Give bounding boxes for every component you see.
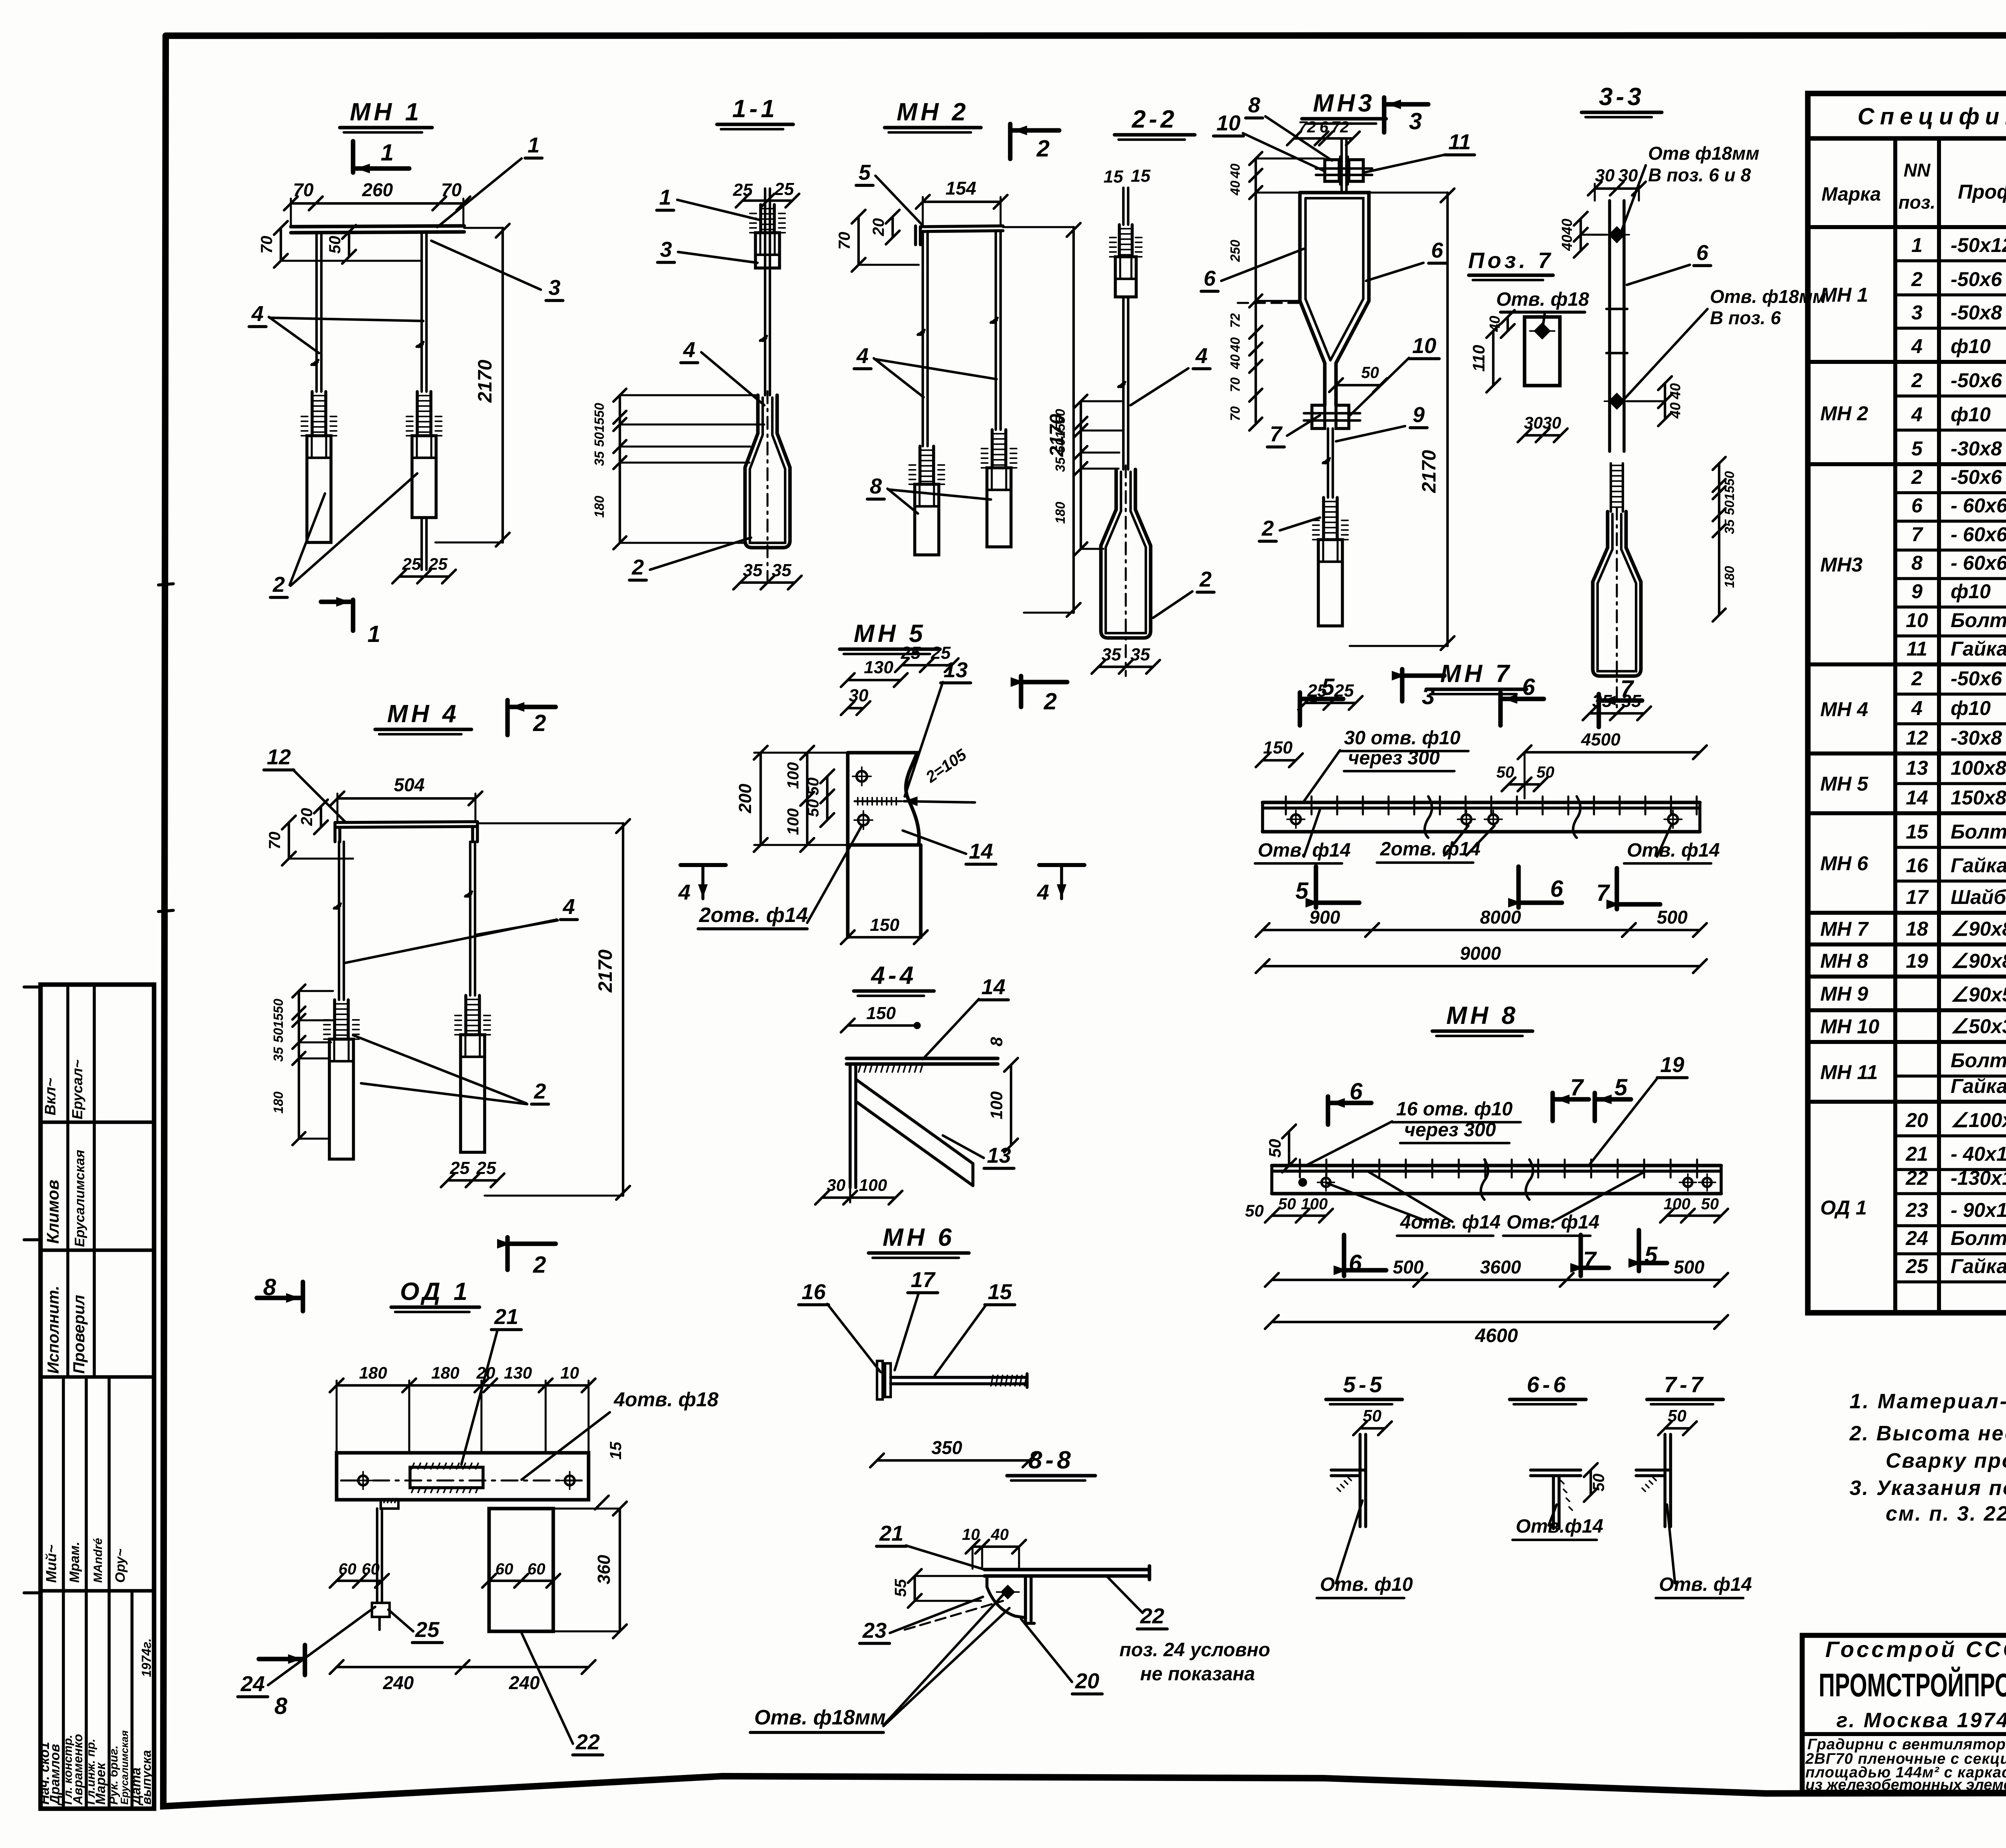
svg-text:МН 5: МН 5 <box>854 620 926 648</box>
MN2 dim 154 <box>923 201 1001 203</box>
stamp h-div 3 <box>41 1375 154 1379</box>
svg-text:10: 10 <box>1216 111 1241 135</box>
svg-text:Отв. ф14: Отв. ф14 <box>1258 840 1351 861</box>
svg-text:1: 1 <box>1911 234 1923 256</box>
MN4 dim 2170 <box>622 823 624 1196</box>
svg-text:МН3: МН3 <box>1313 89 1375 117</box>
svg-text:16: 16 <box>1906 854 1929 877</box>
svg-text:МН 9: МН 9 <box>1820 983 1868 1005</box>
svg-text:4: 4 <box>683 338 695 362</box>
OD1 dim 360 <box>619 1509 621 1631</box>
svg-text:110: 110 <box>1469 345 1488 372</box>
MN8 dim 50 left <box>1288 1131 1290 1166</box>
svg-text:10: 10 <box>962 1526 980 1543</box>
svg-text:30: 30 <box>1543 413 1561 432</box>
svg-text:40: 40 <box>1228 337 1243 352</box>
6-6 dim 50 <box>1590 1470 1592 1495</box>
svg-text:50: 50 <box>271 999 286 1013</box>
stamp outer <box>41 985 154 1809</box>
MN8 bar pos19 <box>1272 1164 1721 1168</box>
MN1 section flag 1 bottom <box>351 600 355 631</box>
MN4 right leg <box>469 842 471 995</box>
MN8 dim 50-100 left <box>1272 1214 1326 1217</box>
svg-text:24: 24 <box>240 1672 265 1696</box>
svg-text:40: 40 <box>1667 383 1683 400</box>
svg-text:13: 13 <box>944 658 968 682</box>
svg-text:50: 50 <box>1363 1406 1382 1425</box>
svg-text:2. Высота неоговоренных сва: 2. Высота неоговоренных сварных швов h=5… <box>1849 1422 2006 1445</box>
Pos7 dim 110 <box>1492 331 1494 386</box>
svg-text:NN: NN <box>1904 160 1931 181</box>
col Марка line <box>1893 138 1897 1313</box>
svg-text:-50x6: -50x6 <box>1951 369 2002 392</box>
svg-text:см. п. 3. 22 пояснительной: см. п. 3. 22 пояснительной записки альбо… <box>1886 1502 2006 1525</box>
MN5 dim 100-100 <box>806 753 808 845</box>
Pos7 plate <box>1525 317 1560 386</box>
svg-text:3: 3 <box>660 238 672 262</box>
svg-text:8: 8 <box>274 1693 288 1719</box>
svg-text:50: 50 <box>1245 1201 1264 1220</box>
svg-text:- 90x10: - 90x10 <box>1951 1199 2006 1221</box>
svg-text:100: 100 <box>987 1091 1006 1119</box>
MN3 dim 2170 <box>1446 193 1449 646</box>
MN3 section flag 3 bottom <box>1400 669 1404 701</box>
svg-text:40: 40 <box>1228 181 1243 196</box>
MN4 top extension <box>477 822 623 824</box>
svg-text:5: 5 <box>1645 1242 1658 1268</box>
svg-text:130: 130 <box>864 658 893 677</box>
svg-text:1: 1 <box>659 185 671 209</box>
svg-text:14: 14 <box>981 975 1005 999</box>
svg-text:6: 6 <box>1320 118 1329 136</box>
svg-text:- 60x6: - 60x6 <box>1951 552 2006 574</box>
svg-text:3: 3 <box>1409 108 1422 134</box>
svg-text:50: 50 <box>1537 764 1555 781</box>
svg-text:4: 4 <box>1911 403 1923 426</box>
svg-text:8000: 8000 <box>1480 907 1521 928</box>
4-4 gusset pos13 <box>856 1079 973 1164</box>
svg-text:180: 180 <box>592 496 607 518</box>
svg-text:3: 3 <box>548 276 560 300</box>
svg-text:13: 13 <box>987 1143 1011 1168</box>
svg-text:50: 50 <box>804 778 822 796</box>
svg-text:- 40x10: - 40x10 <box>1951 1143 2006 1165</box>
8-8 dim 10-40 <box>973 1545 1019 1548</box>
svg-text:МН 8: МН 8 <box>1820 950 1868 972</box>
MN5 section flag 4 right <box>1039 863 1084 867</box>
svg-text:1: 1 <box>528 133 540 157</box>
svg-text:не показана: не показана <box>1140 1663 1255 1685</box>
svg-text:Ору~: Ору~ <box>113 1549 128 1583</box>
svg-text:50: 50 <box>1361 364 1379 382</box>
svg-text:2: 2 <box>1199 567 1212 591</box>
svg-text:3: 3 <box>1422 683 1435 709</box>
svg-text:100: 100 <box>859 1176 887 1194</box>
stamp h-div 4 <box>41 1589 154 1593</box>
4-4 plate pos14 <box>847 1057 998 1060</box>
MN8 flag 5 top <box>1592 1093 1597 1121</box>
svg-text:2170: 2170 <box>475 359 496 403</box>
svg-text:70: 70 <box>266 832 284 850</box>
svg-text:Госстрой СССР: Госстрой СССР <box>1825 1637 2006 1662</box>
svg-text:50: 50 <box>1053 438 1068 453</box>
svg-text:Болт М12: Болт М12 <box>1951 1049 2006 1072</box>
MN7 flag 7 bottom <box>1614 868 1619 909</box>
MN5 dim 30 <box>848 707 863 709</box>
MN2 left sleeve pos8 <box>918 446 922 484</box>
OD1 dim 60-60 left <box>337 1580 382 1582</box>
svg-text:4: 4 <box>251 302 264 326</box>
svg-text:Драмлов: Драмлов <box>47 1744 63 1806</box>
MN5 dim 150 <box>848 936 921 938</box>
svg-text:8-8: 8-8 <box>1028 1446 1074 1474</box>
MN5 weld seam <box>857 798 859 805</box>
OD1 stub <box>381 1500 398 1509</box>
MN4 right sleeve <box>464 995 467 1035</box>
svg-text:4600: 4600 <box>1475 1325 1518 1346</box>
svg-text:2: 2 <box>533 710 546 736</box>
svg-text:Марка: Марка <box>1821 184 1881 205</box>
svg-text:72: 72 <box>1228 313 1243 328</box>
svg-text:25: 25 <box>1905 1255 1929 1277</box>
svg-text:50: 50 <box>1722 471 1737 486</box>
svg-text:12: 12 <box>267 745 291 769</box>
svg-text:30: 30 <box>1618 166 1638 185</box>
svg-text:7-7: 7-7 <box>1664 1372 1706 1397</box>
svg-text:19: 19 <box>1660 1053 1684 1077</box>
svg-text:МН 2: МН 2 <box>1820 402 1868 425</box>
svg-text:15: 15 <box>592 417 607 432</box>
svg-text:35: 35 <box>1102 645 1121 664</box>
OD1 plate pos22 <box>489 1509 553 1631</box>
MN5 dim 200 <box>759 753 762 845</box>
svg-text:100: 100 <box>784 808 802 835</box>
svg-text:2: 2 <box>533 1252 546 1278</box>
svg-text:10: 10 <box>1412 334 1436 358</box>
table title underline <box>1808 136 2006 140</box>
svg-text:г. Москва 1974г.: г. Москва 1974г. <box>1836 1709 2006 1732</box>
svg-text:6: 6 <box>1696 241 1709 265</box>
svg-text:4500: 4500 <box>1581 730 1620 749</box>
MN8 dim 500-3600-500 <box>1272 1279 1721 1281</box>
svg-text:20: 20 <box>1905 1109 1928 1131</box>
svg-text:70: 70 <box>836 232 853 250</box>
MN6 bolt pos15-17 <box>877 1361 883 1399</box>
svg-text:через 300: через 300 <box>1348 747 1440 769</box>
3-3 bar splice <box>1606 308 1627 310</box>
svg-text:15: 15 <box>1906 820 1929 843</box>
svg-text:24: 24 <box>1905 1227 1928 1249</box>
svg-text:2отв. ф14: 2отв. ф14 <box>698 904 808 927</box>
svg-text:∠50x32x4: ∠50x32x4 <box>1951 1015 2006 1038</box>
svg-text:25: 25 <box>415 1618 440 1642</box>
svg-text:50: 50 <box>1722 500 1737 515</box>
MN7 flag 5 bottom <box>1314 867 1318 908</box>
svg-text:50: 50 <box>1265 1139 1284 1158</box>
svg-text:40: 40 <box>1559 219 1575 235</box>
svg-text:150x8: 150x8 <box>1951 786 2006 809</box>
8-8 plate pos21 <box>985 1568 1149 1572</box>
svg-text:5: 5 <box>859 160 871 185</box>
fold mark 3 <box>24 1238 41 1241</box>
svg-text:500: 500 <box>1657 907 1688 928</box>
svg-text:150: 150 <box>870 915 899 935</box>
svg-text:2170: 2170 <box>1419 450 1440 493</box>
svg-text:50: 50 <box>326 236 344 254</box>
svg-text:240: 240 <box>383 1672 414 1693</box>
svg-text:17: 17 <box>1906 886 1929 908</box>
svg-text:9: 9 <box>1413 403 1425 427</box>
MN4 dim 504 <box>337 797 475 800</box>
svg-text:240: 240 <box>509 1672 540 1693</box>
MN2 section flag 2 top <box>1008 124 1012 159</box>
svg-text:Ерусал~: Ерусал~ <box>69 1060 85 1119</box>
svg-text:21: 21 <box>879 1521 904 1545</box>
svg-text:6: 6 <box>1350 1078 1363 1105</box>
svg-text:12: 12 <box>1906 727 1928 749</box>
MN8 hole ticks <box>1299 1160 1301 1178</box>
svg-text:6: 6 <box>1204 266 1216 290</box>
MN2 strap top <box>920 226 1003 227</box>
MN8 dim 100-50 right <box>1667 1214 1721 1217</box>
svg-text:Проверил: Проверил <box>70 1295 88 1374</box>
2-2 sleeve <box>1118 225 1121 257</box>
svg-text:через 300: через 300 <box>1404 1119 1496 1141</box>
3-3 dim 30-30 <box>1595 187 1639 190</box>
8-8 dim 55 <box>914 1576 916 1601</box>
svg-text:15: 15 <box>1131 166 1151 186</box>
svg-text:50: 50 <box>804 799 822 817</box>
MN5 holes <box>857 771 867 782</box>
MN3 section flag 3 top <box>1382 97 1386 132</box>
svg-text:МН 4: МН 4 <box>387 700 459 728</box>
svg-text:Болт М16: Болт М16 <box>1951 609 2006 632</box>
svg-text:154: 154 <box>946 178 977 199</box>
MN7 hole ticks <box>1285 796 1287 814</box>
svg-text:выпуска: выпуска <box>139 1750 154 1805</box>
7-7 angle <box>1663 1434 1667 1527</box>
svg-text:-50x12: -50x12 <box>1951 234 2006 256</box>
svg-text:60: 60 <box>362 1560 380 1578</box>
MN7 dim 900-8000-500 <box>1263 929 1700 931</box>
svg-text:В поз. 6 и 8: В поз. 6 и 8 <box>1648 164 1751 185</box>
svg-text:МН 11: МН 11 <box>1820 1061 1878 1084</box>
svg-text:2: 2 <box>1911 268 1923 290</box>
MN4 section flag 2 top <box>505 700 510 735</box>
svg-text:360: 360 <box>594 1555 614 1584</box>
MN7 dim 50-50 <box>1509 783 1541 786</box>
svg-text:Отв. ф18мм: Отв. ф18мм <box>1710 286 1826 307</box>
1-1 dim 25-25 <box>743 199 792 202</box>
svg-text:50: 50 <box>1053 409 1068 424</box>
stamp v-lines mid <box>62 1377 65 1591</box>
svg-text:180: 180 <box>271 1091 286 1114</box>
svg-text:180: 180 <box>1722 566 1737 588</box>
svg-text:20: 20 <box>476 1363 495 1382</box>
svg-text:Профиль: Профиль <box>1958 181 2006 203</box>
svg-text:6: 6 <box>1522 674 1535 700</box>
svg-text:4: 4 <box>562 895 575 919</box>
MN3 bell outer pos6 <box>1300 193 1369 405</box>
svg-text:2: 2 <box>1911 667 1923 690</box>
svg-text:ф10: ф10 <box>1951 697 1991 719</box>
svg-text:Болт М12: Болт М12 <box>1951 820 2006 843</box>
1-1 dim 35-35 <box>740 581 795 584</box>
svg-text:Отв.ф14: Отв.ф14 <box>1516 1516 1603 1537</box>
svg-text:11: 11 <box>1448 130 1471 154</box>
Pos7 dim 40 <box>1507 317 1509 331</box>
svg-text:35: 35 <box>1131 645 1150 664</box>
title block left divider <box>1802 1732 2006 1736</box>
MN2 dim 20 <box>891 217 894 238</box>
svg-text:40: 40 <box>1228 163 1243 179</box>
svg-text:-50x6: -50x6 <box>1951 466 2002 488</box>
svg-text:40: 40 <box>1228 354 1243 370</box>
svg-text:500: 500 <box>1393 1257 1424 1277</box>
svg-text:150: 150 <box>866 1003 896 1023</box>
MN7 breaks <box>1425 796 1432 838</box>
svg-text:5: 5 <box>1911 437 1923 460</box>
svg-text:50: 50 <box>1590 1474 1608 1492</box>
svg-text:-50x6: -50x6 <box>1951 268 2002 290</box>
MN2 top extension <box>1003 226 1074 228</box>
MN7 dim 4500 <box>1525 751 1700 753</box>
svg-text:25: 25 <box>774 179 794 199</box>
svg-text:40: 40 <box>1667 402 1683 419</box>
svg-text:900: 900 <box>1310 907 1340 928</box>
svg-text:Болт М16: Болт М16 <box>1951 1227 2006 1249</box>
svg-text:МН 1: МН 1 <box>1820 284 1868 306</box>
1-1 bottle pos2 <box>745 395 790 548</box>
MN2 dim 70 <box>857 217 860 265</box>
Pos7 hole diamond <box>1535 324 1549 338</box>
svg-text:25: 25 <box>450 1158 470 1178</box>
svg-text:Отв. ф18мм: Отв. ф18мм <box>754 1706 886 1729</box>
svg-text:16: 16 <box>802 1280 826 1304</box>
OD1 dim 240-240 <box>337 1666 589 1668</box>
svg-text:6: 6 <box>1550 876 1563 902</box>
svg-text:2: 2 <box>631 555 644 579</box>
svg-text:15: 15 <box>271 1013 286 1028</box>
svg-text:19: 19 <box>1906 950 1928 972</box>
7-7 dim 50 <box>1665 1427 1690 1430</box>
svg-text:МН 6: МН 6 <box>883 1224 955 1251</box>
svg-text:2: 2 <box>1261 516 1274 540</box>
svg-text:8: 8 <box>987 1037 1006 1046</box>
MN3 lower clamp pos10 <box>1312 405 1325 428</box>
svg-text:Ерусалимская: Ерусалимская <box>72 1150 87 1247</box>
svg-text:55: 55 <box>892 1579 910 1597</box>
4-4 leg <box>849 1064 852 1188</box>
svg-text:30: 30 <box>849 686 869 705</box>
svg-text:14: 14 <box>1906 786 1928 809</box>
svg-text:35: 35 <box>1053 457 1068 472</box>
svg-text:70: 70 <box>441 179 462 200</box>
svg-text:∠100x8: ∠100x8 <box>1951 1109 2006 1131</box>
MN3 dash level <box>1238 302 1302 304</box>
svg-text:Мрам.: Мрам. <box>67 1541 82 1583</box>
MN2 section flag 2 bottom <box>1019 676 1023 707</box>
MN1 section flag 1 top <box>351 141 355 173</box>
svg-text:МН 4: МН 4 <box>1820 698 1868 721</box>
OD1 section flag 8 bottom <box>303 1645 307 1675</box>
svg-text:3: 3 <box>1911 301 1923 324</box>
svg-text:8: 8 <box>1248 93 1260 117</box>
svg-text:7: 7 <box>1620 676 1634 702</box>
MN7 dim 150 <box>1263 759 1296 762</box>
4-4 dim 100 <box>1010 1065 1012 1145</box>
svg-text:Исполнит.: Исполнит. <box>45 1285 62 1374</box>
3-3 bar pos6 <box>1608 201 1611 451</box>
svg-text:15: 15 <box>607 1442 625 1460</box>
5-5 dim 50 <box>1360 1427 1385 1430</box>
svg-text:50: 50 <box>592 432 607 447</box>
svg-text:500: 500 <box>1674 1257 1705 1277</box>
OD1 center dash <box>341 1480 584 1482</box>
svg-text:- 60x6: - 60x6 <box>1951 494 2006 517</box>
3-3 bottle pos2 <box>1593 512 1641 676</box>
svg-text:40: 40 <box>991 1526 1009 1543</box>
svg-text:2: 2 <box>272 573 285 597</box>
MN8 flag 5 bottom <box>1636 1230 1641 1271</box>
svg-text:7: 7 <box>1270 422 1283 446</box>
svg-text:15: 15 <box>1053 423 1068 438</box>
svg-text:4: 4 <box>1037 880 1049 904</box>
svg-text:250: 250 <box>1228 240 1243 262</box>
svg-text:Поз. 7: Поз. 7 <box>1468 248 1553 273</box>
svg-text:МAndré: МAndré <box>91 1538 105 1583</box>
svg-text:6: 6 <box>1349 1250 1362 1276</box>
MN8 breaks <box>1481 1160 1488 1200</box>
svg-text:13: 13 <box>1906 757 1928 779</box>
2-2 rod top <box>1122 188 1125 225</box>
MN8 right holes <box>1683 1178 1692 1187</box>
svg-text:20: 20 <box>870 218 887 237</box>
svg-text:50: 50 <box>1701 1195 1719 1213</box>
svg-text:Отв. ф14: Отв. ф14 <box>1627 840 1720 861</box>
svg-text:25: 25 <box>402 554 421 573</box>
3-3 dim 35-35 <box>1590 712 1644 715</box>
svg-text:МН 1: МН 1 <box>350 98 422 126</box>
MN3 dim 50 <box>1336 384 1380 386</box>
svg-text:7: 7 <box>1583 1247 1597 1273</box>
svg-text:22: 22 <box>1140 1604 1164 1628</box>
svg-text:30: 30 <box>1595 166 1615 185</box>
MN1 dim 2170 <box>501 228 504 542</box>
svg-text:18: 18 <box>1906 918 1928 940</box>
svg-text:8: 8 <box>263 1274 276 1300</box>
svg-text:Мий~: Мий~ <box>43 1545 59 1583</box>
MN1 right rod tail <box>420 518 423 570</box>
3-3 dim 40-40 right <box>1664 383 1666 419</box>
OD1 slot <box>410 1467 483 1488</box>
svg-text:15: 15 <box>988 1280 1012 1304</box>
svg-text:25: 25 <box>428 554 448 573</box>
1-1 sleeve <box>759 205 762 233</box>
MN1 right rod pos4 <box>420 233 423 392</box>
svg-text:ф10: ф10 <box>1951 335 1991 357</box>
svg-text:50: 50 <box>1496 764 1515 781</box>
svg-text:72: 72 <box>1298 118 1316 136</box>
svg-text:22: 22 <box>575 1730 600 1754</box>
table row lines <box>1895 259 2006 262</box>
svg-text:4: 4 <box>856 344 869 368</box>
svg-text:30 отв. ф10: 30 отв. ф10 <box>1344 727 1461 749</box>
3-3 dim 40 top <box>1580 219 1582 251</box>
MN1 left rod pos4 <box>315 233 318 392</box>
svg-text:16 отв. ф10: 16 отв. ф10 <box>1396 1099 1513 1120</box>
svg-text:7: 7 <box>1596 880 1610 906</box>
